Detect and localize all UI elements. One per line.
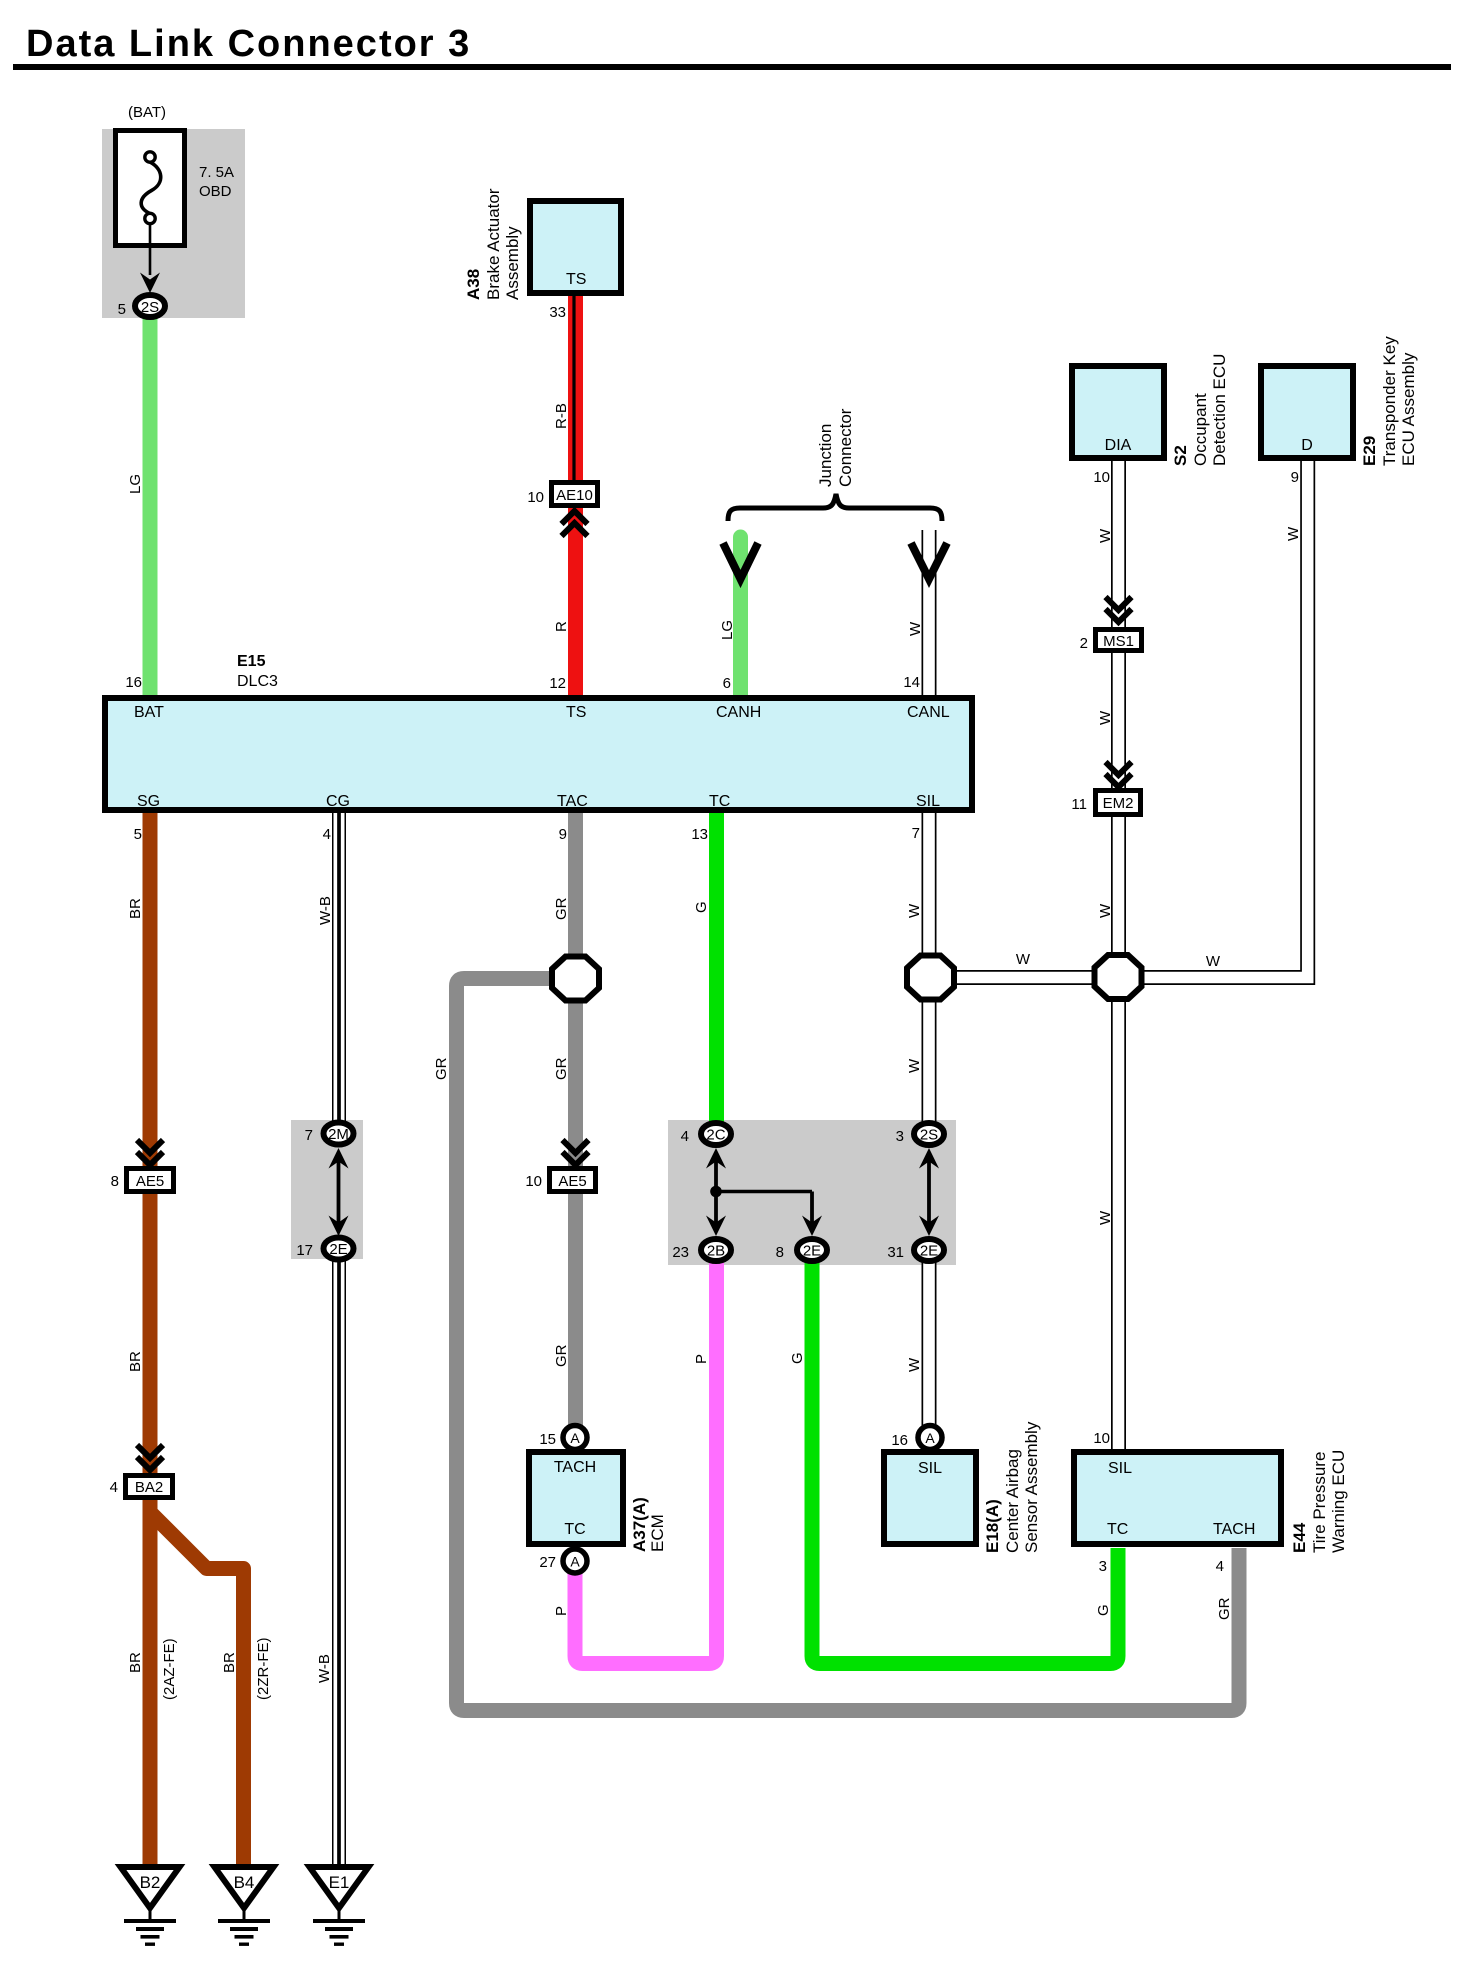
svg-text:MS1: MS1: [1103, 633, 1134, 650]
chevron on CANH stub: [723, 543, 758, 579]
wire label GR (TAC upper): [553, 897, 570, 920]
svg-text:8: 8: [776, 1244, 784, 1261]
svg-text:3: 3: [1099, 1558, 1107, 1575]
svg-text:9: 9: [559, 826, 567, 843]
svg-text:W: W: [1285, 526, 1302, 541]
wire label BR (2ZR-FE): [221, 1652, 238, 1673]
wire label G (to E44 TC): [1095, 1604, 1112, 1616]
connector oval 2S (fuse, pin 5): [135, 295, 165, 317]
svg-text:DIA: DIA: [1105, 437, 1132, 454]
connector oval 2C pin 4: [701, 1123, 731, 1145]
connector oval 2E pin 17: [324, 1238, 354, 1260]
svg-text:9: 9: [1291, 469, 1299, 486]
label A38 Brake Actuator Assembly: [464, 269, 483, 300]
svg-text:W: W: [1097, 710, 1114, 725]
svg-text:TC: TC: [564, 1521, 585, 1538]
svg-text:W: W: [1097, 1210, 1114, 1225]
link arrows 2C to 2B and 2E: [706, 1148, 822, 1236]
svg-text:2S: 2S: [141, 299, 159, 316]
chevron arrow into AE5 (pin 10): [563, 1140, 589, 1165]
label Junction Connector: [816, 424, 835, 487]
svg-text:BAT: BAT: [134, 704, 164, 721]
svg-text:10: 10: [1093, 1430, 1110, 1447]
svg-text:23: 23: [672, 1244, 689, 1261]
svg-text:(2ZR-FE): (2ZR-FE): [255, 1638, 272, 1701]
connector circle A pin 15: [563, 1426, 587, 1450]
wire R-B black stripe: [572, 294, 575, 482]
svg-text:GR: GR: [1216, 1597, 1233, 1620]
svg-text:GR: GR: [553, 897, 570, 920]
svg-text:2M: 2M: [328, 1126, 349, 1143]
svg-text:OBD: OBD: [199, 183, 232, 200]
svg-text:8: 8: [111, 1173, 119, 1190]
wire R-B red part from A38 TS pin 33 to AE10: [568, 294, 583, 482]
connector oval 2B pin 23: [701, 1239, 731, 1261]
connector circle A pin 27: [563, 1549, 587, 1573]
svg-text:W: W: [1206, 953, 1221, 970]
svg-text:LG: LG: [719, 620, 736, 640]
svg-text:14: 14: [903, 674, 920, 691]
svg-text:ECM: ECM: [648, 1514, 667, 1552]
svg-text:W: W: [907, 621, 924, 636]
svg-text:DLC3: DLC3: [237, 673, 278, 690]
svg-text:16: 16: [891, 1432, 908, 1449]
svg-text:A: A: [570, 1430, 580, 1446]
wire label BR (SG): [127, 898, 144, 919]
svg-text:2E: 2E: [920, 1243, 938, 1260]
svg-text:Assembly: Assembly: [503, 226, 522, 300]
wire label W (octagon2 to E44): [1097, 1210, 1114, 1225]
svg-text:CANH: CANH: [716, 704, 761, 721]
connector box AE5 pin 8: [127, 1169, 174, 1192]
wire label R: [553, 621, 570, 632]
svg-text:3: 3: [896, 1128, 904, 1145]
svg-text:W: W: [1016, 951, 1031, 968]
svg-text:5: 5: [118, 301, 126, 318]
svg-text:W: W: [1097, 903, 1114, 918]
wire P from ECM TC pin 27 to connector 2B pin 23: [575, 1261, 717, 1664]
svg-text:ECU Assembly: ECU Assembly: [1399, 352, 1418, 466]
svg-text:AE5: AE5: [558, 1173, 586, 1190]
connector oval 2E pin 31: [914, 1239, 944, 1261]
wire W junction connector stub to E15 CANL pin 14: [922, 530, 937, 697]
wire label BR (below AE5): [127, 1351, 144, 1372]
wire GR loop from junction octagon to E44 TACH pin 4: [457, 979, 1240, 1711]
chevron arrow into MS1: [1106, 597, 1132, 622]
wire label W (D wire): [1285, 526, 1302, 541]
component A38 Brake Actuator Assembly box: [530, 201, 621, 293]
svg-text:CG: CG: [326, 793, 350, 810]
svg-text:2B: 2B: [707, 1243, 725, 1260]
svg-text:4: 4: [681, 1128, 689, 1145]
wire label W (DIA-MS1): [1097, 528, 1114, 543]
svg-text:W: W: [1097, 528, 1114, 543]
wire label LG (BAT wire): [127, 474, 144, 494]
wire label LG (CANH): [719, 620, 736, 640]
svg-text:W-B: W-B: [316, 1654, 333, 1683]
svg-text:W: W: [906, 903, 923, 918]
wire label W (MS1-EM2): [1097, 710, 1114, 725]
link arrow 2M to 2E: [329, 1148, 349, 1236]
connector oval 2E pin 8: [797, 1239, 827, 1261]
svg-text:2: 2: [1080, 635, 1088, 652]
svg-text:SIL: SIL: [918, 1460, 942, 1477]
ground B2: [121, 1867, 180, 1946]
svg-text:12: 12: [549, 675, 566, 692]
wire GR from E15 TAC pin 9 to ECM TACH pin 15: [568, 813, 583, 1430]
svg-text:BA2: BA2: [135, 1479, 163, 1496]
junction connector brace: [728, 494, 942, 521]
ground B4: [215, 1867, 274, 1946]
svg-text:E18(A): E18(A): [983, 1499, 1002, 1553]
component E15 DLC3 box: [105, 698, 972, 810]
svg-text:E1: E1: [329, 1873, 350, 1892]
label E44 Tire Pressure Warning ECU: [1290, 1522, 1309, 1553]
svg-text:11: 11: [1071, 796, 1087, 813]
svg-text:G: G: [693, 901, 710, 913]
chevron arrow into AE5 (pin 8): [137, 1140, 163, 1165]
ground E1: [310, 1867, 369, 1946]
label E29 Transponder Key ECU Assembly: [1360, 436, 1379, 466]
chevron arrow into AE10: [562, 511, 588, 536]
wire G from E15 TC pin 13 to connector 2C pin 4: [709, 813, 724, 1126]
svg-text:7: 7: [305, 1127, 313, 1144]
svg-text:A: A: [570, 1554, 580, 1570]
wire W from E15 SIL pin 7 to E18 SIL pin 16: [922, 813, 937, 1432]
wire label P (2B): [693, 1354, 710, 1364]
chevron arrow into BA2: [137, 1445, 163, 1470]
connector box EM2 pin 11: [1096, 791, 1141, 815]
wire label GR (below octagon): [553, 1057, 570, 1080]
svg-text:33: 33: [549, 304, 566, 321]
svg-text:TAC: TAC: [557, 793, 588, 810]
svg-text:D: D: [1301, 437, 1313, 454]
connector oval 2S pin 3: [914, 1123, 944, 1145]
fuse output wire stem: [149, 223, 152, 275]
wire label GR (loop): [433, 1057, 450, 1080]
svg-text:BR: BR: [127, 1652, 144, 1673]
svg-text:W-B: W-B: [317, 896, 334, 925]
svg-text:7. 5A: 7. 5A: [199, 164, 234, 181]
svg-text:B2: B2: [140, 1873, 161, 1892]
svg-text:(2AZ-FE): (2AZ-FE): [161, 1638, 178, 1700]
svg-text:SIL: SIL: [1108, 1460, 1132, 1477]
connector 2C/2B/2E/2S gray background: [668, 1120, 956, 1265]
svg-text:CANL: CANL: [907, 704, 950, 721]
svg-text:BR: BR: [127, 1351, 144, 1372]
label S2 Occupant Detection ECU: [1171, 445, 1190, 466]
svg-text:G: G: [789, 1352, 806, 1364]
wire label GR (to E44 TACH): [1216, 1597, 1233, 1620]
svg-text:2E: 2E: [803, 1243, 821, 1260]
svg-text:TS: TS: [566, 271, 586, 288]
svg-text:17: 17: [296, 1242, 313, 1259]
label E18(A) Center Airbag Sensor Assembly: [983, 1499, 1002, 1553]
link arrow 2S to 2E: [919, 1148, 939, 1236]
connector box BA2 pin 4: [126, 1476, 173, 1498]
component A37(A) ECM box: [529, 1452, 623, 1544]
svg-text:GR: GR: [553, 1344, 570, 1367]
svg-text:A: A: [925, 1430, 935, 1446]
svg-text:10: 10: [525, 1173, 542, 1190]
wire BR from E15 SG pin 5 to ground B2: [143, 813, 158, 1866]
connector box AE10 pin 10: [552, 483, 598, 506]
svg-text:GR: GR: [433, 1057, 450, 1080]
svg-text:Sensor Assembly: Sensor Assembly: [1022, 1421, 1041, 1553]
fuse area gray background: [102, 129, 245, 318]
wire label G (2E): [789, 1352, 806, 1364]
svg-text:4: 4: [110, 1479, 118, 1496]
svg-text:SG: SG: [137, 793, 160, 810]
wire W horizontal junction row and to E29 D pin 9: [940, 461, 1308, 978]
svg-text:TACH: TACH: [554, 1459, 596, 1476]
svg-text:10: 10: [527, 489, 544, 506]
connector 2M/2E gray background: [291, 1120, 363, 1259]
label A37(A) ECM: [630, 1497, 649, 1552]
svg-text:31: 31: [887, 1244, 904, 1261]
wire label W-B (CG upper): [317, 896, 334, 925]
svg-text:6: 6: [723, 675, 731, 692]
connector box AE5 pin 10: [550, 1169, 596, 1192]
svg-text:E29: E29: [1360, 436, 1379, 466]
wire W right column from S2 DIA pin 10 to E44 SIL pin 10: [1111, 461, 1126, 1455]
svg-text:5: 5: [134, 826, 142, 843]
svg-text:AE5: AE5: [136, 1173, 164, 1190]
wire label W (EM2-octagon): [1097, 903, 1114, 918]
fuse output arrowhead: [140, 273, 160, 294]
svg-text:TS: TS: [566, 704, 586, 721]
svg-text:Data Link Connector 3: Data Link Connector 3: [26, 23, 471, 65]
svg-text:4: 4: [1216, 1558, 1224, 1575]
svg-text:2S: 2S: [920, 1127, 938, 1144]
svg-text:EM2: EM2: [1103, 795, 1134, 812]
svg-text:E44: E44: [1290, 1522, 1309, 1553]
svg-text:B4: B4: [234, 1873, 255, 1892]
svg-text:W: W: [906, 1357, 923, 1372]
svg-text:Connector: Connector: [836, 408, 855, 487]
fuse 7.5A OBD box: [116, 131, 185, 246]
connector box MS1 pin 2: [1096, 630, 1142, 651]
svg-text:Center Airbag: Center Airbag: [1003, 1449, 1022, 1553]
svg-text:Tire Pressure: Tire Pressure: [1310, 1452, 1329, 1553]
svg-text:A38: A38: [464, 269, 483, 300]
svg-text:2E: 2E: [329, 1241, 347, 1258]
svg-text:10: 10: [1093, 469, 1110, 486]
svg-text:(BAT): (BAT): [128, 104, 166, 121]
wire R from AE10 to E15 TS pin 12: [568, 506, 583, 697]
wire LG from fuse 2S to E15 BAT pin 16: [143, 318, 158, 697]
wire label R-B: [553, 403, 570, 429]
svg-text:7: 7: [912, 825, 920, 842]
svg-text:27: 27: [539, 1554, 556, 1571]
svg-text:Transponder Key: Transponder Key: [1380, 336, 1399, 466]
junction octagon on TAC GR wire: [552, 957, 599, 1001]
svg-text:P: P: [693, 1354, 710, 1364]
svg-text:Warning ECU: Warning ECU: [1329, 1450, 1348, 1553]
svg-text:13: 13: [691, 826, 708, 843]
chevron arrow into EM2: [1106, 762, 1132, 787]
svg-text:GR: GR: [553, 1057, 570, 1080]
svg-text:BR: BR: [127, 898, 144, 919]
component E18(A) Center Airbag Sensor Assembly box: [884, 1452, 976, 1544]
chevron on CANL stub: [911, 543, 947, 579]
wire label G (TC): [693, 901, 710, 913]
svg-text:R: R: [553, 621, 570, 632]
wire label GR (to ECM): [553, 1344, 570, 1367]
component E44 Tire Pressure Warning ECU box: [1074, 1452, 1281, 1544]
title underline rule: [13, 64, 1451, 70]
svg-text:A37(A): A37(A): [630, 1497, 649, 1552]
svg-text:R-B: R-B: [553, 403, 570, 429]
svg-text:TC: TC: [1107, 1521, 1128, 1538]
connector oval 2M pin 7: [324, 1123, 354, 1145]
fuse element symbol: [141, 152, 161, 224]
wire G from connector 2E pin 8 to E44 TC pin 3: [812, 1258, 1118, 1664]
svg-text:Brake Actuator: Brake Actuator: [484, 188, 503, 300]
svg-text:15: 15: [539, 1431, 556, 1448]
svg-text:BR: BR: [221, 1652, 238, 1673]
svg-text:W: W: [906, 1058, 923, 1073]
wire label P (ECM TC): [553, 1606, 570, 1616]
wire LG junction connector stub to E15 CANH pin 6: [733, 537, 748, 697]
svg-text:P: P: [553, 1606, 570, 1616]
svg-text:S2: S2: [1171, 445, 1190, 466]
wire label W-B (CG lower): [316, 1654, 333, 1683]
component S2 Occupant Detection ECU box: [1072, 366, 1164, 458]
svg-text:SIL: SIL: [916, 793, 940, 810]
wire label BR (2AZ-FE): [127, 1652, 144, 1673]
wire label W (CANL): [907, 621, 924, 636]
svg-text:16: 16: [125, 674, 142, 691]
svg-text:Occupant: Occupant: [1191, 393, 1210, 466]
svg-text:TACH: TACH: [1213, 1521, 1255, 1538]
svg-text:Junction: Junction: [816, 424, 835, 487]
junction octagon on right W column: [1095, 955, 1142, 999]
wire BR branch to ground B4: [150, 1512, 244, 1866]
component E29 Transponder Key ECU Assembly box: [1261, 366, 1353, 458]
wire label W (above octagon2): [906, 1058, 923, 1073]
svg-text:Detection ECU: Detection ECU: [1210, 354, 1229, 466]
wire W-B from E15 CG pin 4 to ground E1: [332, 813, 346, 1867]
svg-text:TC: TC: [709, 793, 730, 810]
svg-text:AE10: AE10: [556, 487, 593, 504]
svg-text:LG: LG: [127, 474, 144, 494]
junction octagon on SIL W wire: [907, 956, 954, 1000]
connector circle A pin 16: [918, 1426, 942, 1450]
svg-text:G: G: [1095, 1604, 1112, 1616]
svg-text:E15: E15: [237, 653, 266, 670]
svg-text:2C: 2C: [706, 1127, 725, 1144]
wire label W (SIL upper): [906, 903, 923, 918]
wire label W (to E18): [906, 1357, 923, 1372]
svg-text:4: 4: [323, 826, 331, 843]
